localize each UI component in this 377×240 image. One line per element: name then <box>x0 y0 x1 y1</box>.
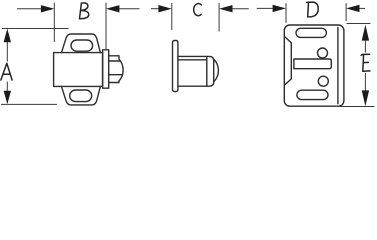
middle slot <box>294 59 331 69</box>
arrowhead D right (points left) <box>346 5 359 12</box>
arrowhead E down <box>362 90 369 106</box>
dim B ext left <box>53 3 55 43</box>
bottom mounting tab <box>62 86 101 105</box>
outer rounded plate <box>284 25 344 106</box>
arrowhead A down <box>4 91 11 104</box>
dim D ext left <box>285 3 287 23</box>
roller bulge (side) <box>214 59 219 81</box>
bottom oval slot <box>70 90 92 102</box>
top slot <box>296 28 326 37</box>
dim A line lower <box>6 82 8 101</box>
body rectangle <box>54 53 103 87</box>
bottom slot <box>297 90 328 99</box>
housing inner vertical <box>206 57 208 86</box>
dim D left tail <box>257 7 277 9</box>
dim D right tail <box>353 7 365 9</box>
dim C left tail <box>151 8 164 10</box>
dim E line upper <box>364 39 366 53</box>
arrowhead C right (points left) <box>219 5 232 12</box>
dim A extension top <box>2 28 69 30</box>
dim E ext top <box>347 23 371 25</box>
arrowhead D left (points right) <box>273 5 286 12</box>
arrowhead E up <box>362 25 369 41</box>
screw hole upper <box>318 48 328 58</box>
dim A line upper <box>6 33 8 62</box>
inner right edge line <box>337 28 339 104</box>
dim C ext right <box>218 3 220 32</box>
arrowhead B right (points left) <box>106 5 119 12</box>
mounting plate (side) <box>173 41 178 92</box>
dim B ext right <box>105 3 107 50</box>
flange <box>103 50 109 88</box>
label A <box>1 63 12 80</box>
roller (front) <box>109 56 123 83</box>
dim B left tail <box>17 8 45 10</box>
label D <box>307 2 319 17</box>
arrowhead A up <box>4 29 11 43</box>
dim E line lower <box>364 73 366 91</box>
dim A extension bottom <box>1 103 57 105</box>
arrowhead C left (points right) <box>158 5 171 12</box>
arrowhead B left (points right) <box>41 5 54 12</box>
roller band lines <box>109 60 121 62</box>
inner left edge with chamfers <box>285 37 291 84</box>
housing inner top line <box>178 59 207 61</box>
dim B right tail <box>114 8 140 10</box>
top oval slot <box>71 40 93 51</box>
dim E ext bottom <box>339 106 374 108</box>
dim C ext left <box>171 3 173 30</box>
top mounting tab <box>62 34 101 53</box>
label C <box>194 4 202 16</box>
screw hole lower <box>318 76 328 86</box>
dim C right tail <box>227 8 249 10</box>
label E <box>361 54 370 71</box>
dim D ext right <box>345 3 347 21</box>
housing outline <box>178 56 214 86</box>
label B <box>80 3 89 19</box>
